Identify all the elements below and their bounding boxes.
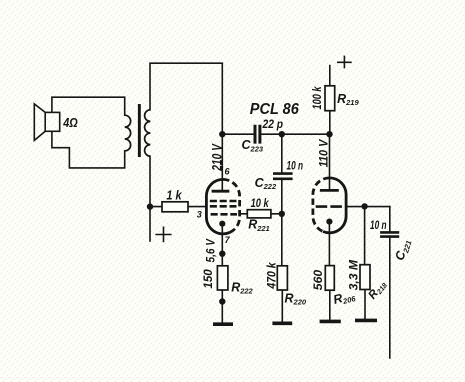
svg-text:3,3 M: 3,3 M: [348, 260, 360, 291]
svg-text:1 k: 1 k: [166, 188, 182, 203]
svg-text:5,6 V: 5,6 V: [205, 238, 217, 263]
svg-text:100 k: 100 k: [312, 86, 324, 109]
svg-text:4Ω: 4Ω: [62, 115, 77, 130]
svg-text:22 p: 22 p: [262, 117, 283, 131]
svg-text:560: 560: [313, 269, 325, 290]
svg-text:470 k: 470 k: [267, 262, 279, 290]
svg-text:10 n: 10 n: [370, 218, 387, 232]
svg-text:110 V: 110 V: [317, 139, 331, 167]
svg-text:150: 150: [203, 269, 215, 289]
svg-text:10 k: 10 k: [251, 196, 270, 210]
svg-text:210 V: 210 V: [210, 143, 225, 171]
svg-text:10 n: 10 n: [287, 159, 304, 173]
svg-text:PCL 86: PCL 86: [250, 101, 299, 118]
svg-text:3: 3: [197, 209, 202, 219]
